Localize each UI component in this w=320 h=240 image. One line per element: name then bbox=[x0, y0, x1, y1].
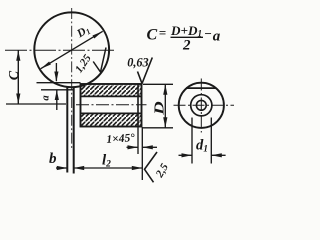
roughness mark 1,25 on wheel rim bbox=[93, 48, 106, 73]
dimension D extension top bbox=[143, 83, 173, 85]
end view bore circle bbox=[191, 95, 212, 116]
dimension a lower arrow (points up to wheel tangent line) bbox=[56, 90, 58, 110]
svg-text:0,63: 0,63 bbox=[127, 56, 149, 70]
svg-text:a: a bbox=[213, 28, 221, 44]
bore upper line bbox=[81, 95, 142, 97]
extension line right edge (below cylinder) bbox=[141, 127, 143, 180]
extension line: bottom tangent of wheel bbox=[41, 89, 74, 91]
svg-text:b: b bbox=[49, 151, 57, 167]
end view outer circle bbox=[179, 83, 224, 128]
end view horizontal centerline bbox=[174, 104, 235, 106]
cylinder centerline bbox=[76, 104, 147, 106]
top hatch band bbox=[81, 85, 140, 96]
dimension D extension bottom bbox=[143, 127, 173, 129]
extension line: cylinder axis extended left (bottom of C) bbox=[6, 103, 66, 105]
end view inner chamfer circle bbox=[196, 100, 206, 110]
arrowhead D1 lower-left bbox=[41, 62, 51, 69]
roughness mark 2,5 at l2 extension bbox=[145, 152, 158, 182]
arrowhead D1 upper-right bbox=[93, 31, 103, 38]
extension line chamfer (below cylinder) bbox=[137, 127, 139, 154]
formula C = (D+D1)/2 - a bbox=[147, 23, 221, 54]
d1 extension lines bbox=[191, 118, 193, 164]
extension line: top of cylinder extended left bbox=[37, 82, 81, 84]
dimension D1 diagonal line bbox=[41, 31, 103, 68]
roughness mark 0,63 on cylinder top right corner bbox=[138, 58, 153, 84]
chamfer edge line bbox=[137, 84, 139, 127]
d1 dimension arrows bbox=[179, 154, 193, 156]
dimension C vertical line with arrows bbox=[17, 50, 19, 104]
svg-text:=: = bbox=[159, 25, 166, 40]
dimension a upper arrow (points down to cylinder top line) bbox=[55, 63, 57, 81]
dimension b arrow (left, pointing right) bbox=[56, 167, 67, 169]
horizontal centerline of wheel / extension for dimension C bbox=[5, 49, 116, 51]
bottom hatch band bbox=[81, 114, 140, 126]
svg-text:a: a bbox=[41, 95, 52, 100]
svg-text:D: D bbox=[152, 101, 167, 116]
cylinder outline (side view) bbox=[81, 84, 142, 127]
svg-text:2: 2 bbox=[182, 37, 191, 53]
dimension D vertical line with arrows bbox=[164, 84, 166, 128]
shaft side lines (width b) bbox=[66, 87, 68, 173]
chord (flat) at top of end view bbox=[186, 87, 216, 89]
vertical centerline of wheel bbox=[71, 8, 73, 150]
chamfer dimension 1x45 arrows bbox=[127, 146, 139, 148]
wheel circle D1 (front view of knurling wheel) bbox=[34, 12, 109, 87]
dimension line l2 with arrows bbox=[74, 167, 143, 169]
svg-text:C: C bbox=[7, 70, 22, 80]
svg-text:−: − bbox=[204, 26, 212, 41]
end view vertical centerline bbox=[200, 79, 202, 133]
svg-text:1×45°: 1×45° bbox=[106, 132, 136, 146]
svg-text:D+D1: D+D1 bbox=[170, 23, 202, 39]
bore lower line bbox=[81, 112, 142, 114]
svg-text:C: C bbox=[147, 27, 158, 44]
